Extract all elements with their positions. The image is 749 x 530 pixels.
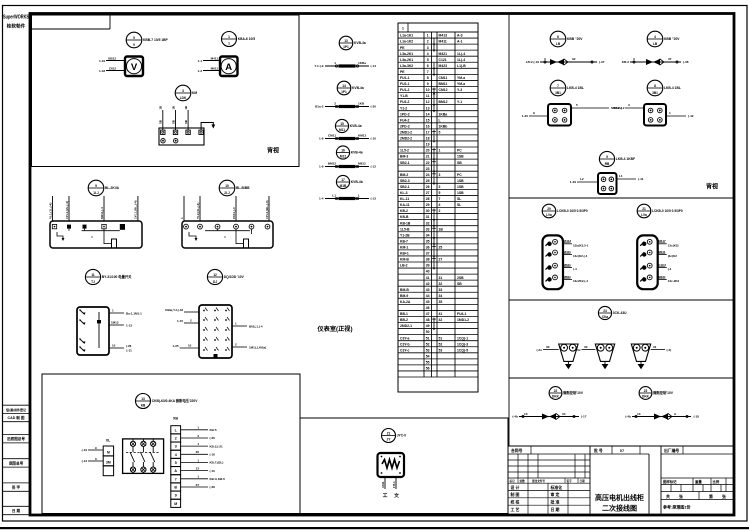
svg-text:10: 10 <box>112 343 116 347</box>
svg-text:高压电机出线柜: 高压电机出线柜 <box>595 493 644 502</box>
svg-text:33: 33 <box>439 288 443 292</box>
svg-text:XB: XB <box>173 417 178 421</box>
svg-text:M611,(-4: M611,(-4 <box>100 207 104 219</box>
svg-text:桂软勃件: 桂软勃件 <box>6 23 26 30</box>
svg-text:工 艺: 工 艺 <box>511 507 520 512</box>
svg-text:底图总号: 底图总号 <box>8 460 24 465</box>
svg-text:BL-2KVA: BL-2KVA <box>105 186 120 190</box>
svg-text:微断控制'10V: 微断控制'10V <box>652 390 674 395</box>
svg-text:1KBa: 1KBa <box>439 112 448 116</box>
svg-text:16: 16 <box>426 124 430 128</box>
svg-text:51: 51 <box>439 336 443 340</box>
svg-text:第: 第 <box>709 494 713 499</box>
svg-text:1: 1 <box>427 34 429 38</box>
svg-text:15: 15 <box>340 122 344 126</box>
svg-text:3B1: 3B1 <box>555 91 561 95</box>
svg-text:C3Y-a: C3Y-a <box>400 336 410 340</box>
svg-text:3: 3 <box>175 445 177 449</box>
svg-text:24: 24 <box>426 173 430 177</box>
svg-text:KB:2,(-21: KB:2,(-21 <box>210 444 224 448</box>
svg-text:5: 5 <box>439 130 441 134</box>
svg-text:SB: SB <box>171 120 175 124</box>
svg-text:22: 22 <box>426 161 430 165</box>
svg-text:A: A <box>174 469 177 473</box>
svg-text:1B: 1B <box>171 106 175 110</box>
svg-text:RB: RB <box>605 162 610 166</box>
svg-text:1SB: 1SB <box>457 191 464 195</box>
svg-text:(-13: (-13 <box>371 197 377 201</box>
svg-text:1-11: 1-11 <box>126 349 132 353</box>
svg-text:KB:A,KB:6: KB:A,KB:6 <box>210 477 226 481</box>
svg-text:L: L <box>358 193 360 197</box>
svg-text:背视: 背视 <box>267 147 279 155</box>
svg-text:5: 5 <box>133 36 135 40</box>
svg-text:1PD-2: 1PD-2 <box>400 112 410 116</box>
svg-text:BB-2: BB-2 <box>400 318 408 322</box>
svg-text:L1a-1K1: L1a-1K1 <box>400 34 413 38</box>
svg-text:A: A <box>225 62 232 73</box>
svg-text:C612: C612 <box>109 66 117 70</box>
svg-text:KM-1: KM-1 <box>400 245 408 249</box>
svg-text:SB2-1: SB2-1 <box>400 161 410 165</box>
svg-text:1KBb: 1KBb <box>439 124 448 128</box>
svg-text:13: 13 <box>196 466 200 470</box>
svg-text:SB2-3: SB2-3 <box>400 179 410 183</box>
svg-text:张: 张 <box>722 494 726 499</box>
svg-text:M: M <box>107 450 110 454</box>
svg-text:M: M <box>174 502 177 506</box>
svg-text:1SB: 1SB <box>457 185 464 189</box>
svg-text:LCKB-0 10/5 0.5/3P0: LCKB-0 10/5 0.5/3P0 <box>652 209 683 213</box>
svg-text:YM-a: YM-a <box>457 82 465 86</box>
svg-text:27: 27 <box>426 191 430 195</box>
svg-text:20: 20 <box>547 207 551 211</box>
svg-text:12: 12 <box>213 273 217 277</box>
svg-text:21: 21 <box>387 431 391 435</box>
svg-text:设 计: 设 计 <box>511 485 520 490</box>
svg-text:(-38: (-38 <box>683 60 689 64</box>
svg-text:KBB "20V: KBB "20V <box>567 37 583 41</box>
svg-text:旧底图总号: 旧底图总号 <box>7 436 25 441</box>
svg-text:KBA-6 10/5: KBA-6 10/5 <box>238 37 256 41</box>
svg-text:32: 32 <box>439 282 443 286</box>
svg-text:BB12: BB12 <box>108 56 116 60</box>
svg-text:CM11: CM11 <box>439 76 448 80</box>
svg-text:制 图: 制 图 <box>511 492 520 497</box>
svg-text:Y-3: Y-3 <box>457 88 462 92</box>
svg-text:YM-a: YM-a <box>457 76 465 80</box>
svg-text:LKB-4 1BL: LKB-4 1BL <box>664 86 681 90</box>
svg-text:1-8: 1-8 <box>319 137 324 141</box>
svg-text:13c(K2): 13c(K2) <box>668 243 679 247</box>
svg-text:L3a-2K1: L3a-2K1 <box>400 58 413 62</box>
svg-text:DJ: DJ <box>213 280 217 284</box>
svg-text:参考:原理图1份: 参考:原理图1份 <box>662 504 691 510</box>
svg-text:1SB: 1SB <box>457 179 464 183</box>
svg-text:1-9: 1-9 <box>319 165 324 169</box>
svg-text:Y1-B: Y1-B <box>400 94 408 98</box>
svg-text:C3Y-c: C3Y-c <box>400 348 410 352</box>
svg-text:1-49: 1-49 <box>570 180 576 184</box>
svg-text:KM: KM <box>192 91 197 95</box>
svg-text:LDK: LDK <box>180 96 187 100</box>
svg-text:CKB(-63/0.4KA 微断电压'220V: CKB(-63/0.4KA 微断电压'220V <box>152 398 199 403</box>
svg-text:1-1: 1-1 <box>198 59 203 63</box>
svg-text:(-37: (-37 <box>599 60 605 64</box>
svg-text:KVB-4a: KVB-4a <box>354 41 366 45</box>
svg-text:SB: SB <box>457 282 462 286</box>
svg-text:47: 47 <box>426 312 430 316</box>
svg-text:M812: M812 <box>358 161 366 165</box>
svg-text:2PD-2: 2PD-2 <box>400 124 410 128</box>
svg-text:(-18: (-18 <box>694 415 700 419</box>
svg-text:1LJ: 1LJ <box>93 191 99 195</box>
svg-text:DQ/1DD '10V: DQ/1DD '10V <box>224 275 245 279</box>
svg-text:LB:2,(-19: LB:2,(-19 <box>526 60 540 64</box>
svg-text:V: V <box>131 62 138 73</box>
svg-text:BM-2: BM-2 <box>400 173 408 177</box>
svg-text:L1: L1 <box>332 193 336 197</box>
svg-text:L: L <box>439 118 441 122</box>
svg-text:15: 15 <box>426 118 430 122</box>
svg-text:签字: 签字 <box>566 479 573 483</box>
svg-text:9: 9 <box>606 155 608 159</box>
svg-text:工: 工 <box>383 493 388 499</box>
svg-text:2: 2 <box>334 101 336 105</box>
svg-text:1CQ)-3: 1CQ)-3 <box>457 342 468 346</box>
svg-text:借(通)用件登记: 借(通)用件登记 <box>5 407 26 412</box>
svg-text:KB+1: KB+1 <box>400 252 409 256</box>
svg-text:KM12: KM12 <box>358 133 367 137</box>
svg-text:BB-1: BB-1 <box>400 312 408 316</box>
svg-text:FU4-2: FU4-2 <box>400 118 410 122</box>
svg-text:SuperWORKS: SuperWORKS <box>3 15 29 21</box>
svg-text:SB2-1: SB2-1 <box>400 185 410 189</box>
svg-text:(-2): (-2) <box>667 348 672 352</box>
svg-text:56: 56 <box>426 367 430 371</box>
svg-text:42: 42 <box>439 318 443 322</box>
svg-text:7: 7 <box>557 84 559 88</box>
svg-text:38: 38 <box>426 258 430 262</box>
svg-text:29: 29 <box>426 203 430 207</box>
svg-text:11: 11 <box>426 94 430 98</box>
svg-text:L3a-3K2: L3a-3K2 <box>400 64 413 68</box>
svg-text:41: 41 <box>426 276 430 280</box>
svg-text:35: 35 <box>196 450 200 454</box>
svg-text:LB: LB <box>653 42 658 46</box>
svg-text:M413: M413 <box>439 34 448 38</box>
svg-text:CKa: CKa <box>602 315 609 319</box>
svg-text:34: 34 <box>562 412 566 416</box>
svg-text:L1)-B: L1)-B <box>457 64 466 68</box>
svg-text:1L)-4: 1L)-4 <box>457 52 465 56</box>
svg-text:13c(K2,(-4: 13c(K2,(-4 <box>573 254 588 258</box>
svg-text:54: 54 <box>426 354 430 358</box>
svg-text:PC: PC <box>457 149 462 153</box>
svg-text:1P1: 1P1 <box>343 45 349 49</box>
svg-text:(-28: (-28 <box>210 485 216 489</box>
svg-text:35: 35 <box>426 239 430 243</box>
svg-text:7: 7 <box>427 70 429 74</box>
svg-text:5: 5 <box>175 461 177 465</box>
svg-text:2MD2-1: 2MD2-1 <box>400 324 412 328</box>
svg-text:4: 4 <box>654 35 656 39</box>
svg-text:重量: 重量 <box>695 479 702 484</box>
svg-text:1-20: 1-20 <box>522 114 528 118</box>
svg-text:SB2:3: SB2:3 <box>613 106 622 110</box>
svg-text:L3a-2K1: L3a-2K1 <box>400 52 413 56</box>
svg-text:(-10: (-10 <box>210 469 216 473</box>
svg-text:1YL1,(BL,(-4): 1YL1,(BL,(-4) <box>134 200 138 219</box>
svg-text:A-1: A-1 <box>457 40 463 44</box>
svg-text:45: 45 <box>426 300 430 304</box>
svg-text:(-10: (-10 <box>371 137 377 141</box>
svg-text:XL: XL <box>106 439 111 443</box>
svg-text:1SB: 1SB <box>457 155 464 159</box>
svg-text:8: 8 <box>427 76 429 80</box>
svg-text:5: 5 <box>427 58 429 62</box>
svg-text:14: 14 <box>342 84 346 88</box>
svg-text:(-42: (-42 <box>688 114 694 118</box>
svg-text:1KB: 1KB <box>358 101 365 105</box>
svg-text:19: 19 <box>426 143 430 147</box>
svg-text:Y1-2B: Y1-2B <box>400 233 410 237</box>
svg-text:文: 文 <box>394 492 399 499</box>
svg-text:51: 51 <box>426 336 430 340</box>
svg-text:1YL2,(BL,(-4): 1YL2,(BL,(-4) <box>265 200 269 219</box>
svg-text:17: 17 <box>341 178 345 182</box>
svg-text:YL1,(1L,(-4): YL1,(1L,(-4) <box>48 203 52 219</box>
svg-text:(-12: (-12 <box>371 165 377 169</box>
svg-text:KBB-7 10/5 1BP: KBB-7 10/5 1BP <box>143 38 169 42</box>
svg-text:图样标记: 图样标记 <box>663 479 677 484</box>
svg-text:KB:5: KB:5 <box>210 428 217 432</box>
svg-text:A-3: A-3 <box>457 34 463 38</box>
svg-text:1: 1 <box>669 111 671 115</box>
svg-text:LVa: LVa <box>546 213 552 217</box>
svg-text:10: 10 <box>426 88 430 92</box>
svg-text:SB: SB <box>159 120 163 124</box>
svg-text:6: 6 <box>557 35 559 39</box>
svg-text:(-16: (-16 <box>210 453 216 457</box>
svg-text:37: 37 <box>196 483 200 487</box>
svg-text:M411: M411 <box>439 40 447 44</box>
svg-text:13: 13 <box>524 412 528 416</box>
svg-text:9: 9 <box>533 111 535 115</box>
svg-text:Y.1:(-9: Y.1:(-9 <box>314 64 323 68</box>
svg-text:(-26: (-26 <box>210 436 216 440</box>
svg-text:标准化: 标准化 <box>550 485 563 490</box>
svg-text:1Bc(K3,5-): 1Bc(K3,5-) <box>573 243 588 247</box>
svg-text:21: 21 <box>642 207 646 211</box>
svg-text:35: 35 <box>439 300 443 304</box>
svg-text:9: 9 <box>95 184 97 188</box>
svg-text:20: 20 <box>426 149 430 153</box>
svg-text:3: 3 <box>439 173 441 177</box>
svg-text:KM-B: KM-B <box>400 258 409 262</box>
svg-text:2: 2 <box>439 209 441 213</box>
svg-text:1B: 1B <box>184 106 188 110</box>
svg-text:(-13: (-13 <box>82 459 88 463</box>
svg-text:SB: SB <box>457 161 462 165</box>
svg-text:39: 39 <box>426 264 430 268</box>
svg-text:出厂编号: 出厂编号 <box>664 448 679 453</box>
svg-text:签 字: 签 字 <box>12 485 21 490</box>
svg-text:5: 5 <box>439 191 441 195</box>
svg-text:KVB-4a: KVB-4a <box>350 124 362 128</box>
svg-text:KVB-4a: KVB-4a <box>352 86 364 90</box>
svg-text:43: 43 <box>426 288 430 292</box>
svg-text:C611,(-4: C611,(-4 <box>232 207 236 219</box>
svg-text:审 定: 审 定 <box>551 492 560 497</box>
svg-text:53: 53 <box>426 348 430 352</box>
svg-text:(-4: (-4 <box>573 267 577 271</box>
svg-text:背视: 背视 <box>706 183 718 191</box>
svg-text:1-19: 1-19 <box>99 59 105 63</box>
svg-text:1: 1 <box>334 61 336 65</box>
svg-text:KB-2: KB-2 <box>400 209 408 213</box>
svg-text:52: 52 <box>426 342 430 346</box>
svg-text:8: 8 <box>654 84 656 88</box>
svg-text:比例: 比例 <box>713 479 720 484</box>
svg-text:23: 23 <box>644 389 648 393</box>
svg-text:KB-7: KB-7 <box>400 239 408 243</box>
svg-text:(-2x: (-2x <box>536 348 542 352</box>
svg-text:13c-2K2: 13c-2K2 <box>668 279 680 283</box>
svg-text:2: 2 <box>427 40 429 44</box>
svg-text:2LJ: 2LJ <box>224 191 230 195</box>
svg-text:1-35: 1-35 <box>172 344 178 348</box>
svg-text:12: 12 <box>426 100 430 104</box>
svg-text:44: 44 <box>426 294 430 298</box>
svg-text:37: 37 <box>426 252 430 256</box>
svg-text:L2: L2 <box>580 177 584 181</box>
svg-text:TJ: TJ <box>91 280 95 284</box>
svg-text:27: 27 <box>439 258 443 262</box>
svg-text:仪表室(正视): 仪表室(正视) <box>316 325 352 333</box>
svg-text:26: 26 <box>426 185 430 189</box>
svg-text:1B: 1B <box>159 106 163 110</box>
svg-text:55: 55 <box>426 360 430 364</box>
svg-text:FU4-1: FU4-1 <box>457 312 467 316</box>
svg-text:18: 18 <box>426 137 430 141</box>
svg-text:(3c(K2: (3c(K2 <box>668 254 678 258</box>
svg-text:1: 1 <box>439 149 441 153</box>
svg-text:FU2-2: FU2-2 <box>400 100 410 104</box>
svg-text:YL2,(2L,(-4): YL2,(2L,(-4) <box>196 203 200 219</box>
svg-text:4: 4 <box>175 453 177 457</box>
svg-text:KVB-4a: KVB-4a <box>351 151 363 155</box>
svg-text:49: 49 <box>426 324 430 328</box>
svg-text:BM11: BM11 <box>439 82 448 86</box>
svg-text:7: 7 <box>175 477 177 481</box>
svg-text:JYC-0: JYC-0 <box>397 434 407 438</box>
svg-text:46: 46 <box>426 306 430 310</box>
svg-text:L1: L1 <box>619 174 623 178</box>
svg-text:48: 48 <box>426 318 430 322</box>
svg-text:30: 30 <box>546 345 550 349</box>
svg-text:13c2K2,(-4: 13c2K2,(-4 <box>573 279 588 283</box>
svg-text:3: 3 <box>182 89 184 93</box>
svg-text:1YL1: 1YL1 <box>392 481 396 488</box>
svg-text:1YL1,(2L,(-4): 1YL1,(2L,(-4) <box>65 201 69 219</box>
svg-text:3B1: 3B1 <box>652 91 658 95</box>
svg-text:3CK-43U: 3CK-43U <box>613 311 627 315</box>
svg-text:1L)-4: 1L)-4 <box>457 58 465 62</box>
svg-text:4: 4 <box>439 203 441 207</box>
svg-text:DKK: DKK <box>642 395 650 399</box>
svg-text:PC: PC <box>457 173 462 177</box>
svg-text:C3Y-b: C3Y-b <box>400 342 410 346</box>
svg-text:23: 23 <box>426 167 430 171</box>
svg-text:1-3: 1-3 <box>198 69 203 73</box>
svg-text:BM12: BM12 <box>328 161 337 165</box>
svg-text:2MD2-2: 2MD2-2 <box>400 137 412 141</box>
svg-text:KB:7,(BL): KB:7,(BL) <box>210 461 224 465</box>
svg-text:1-4: 1-4 <box>319 197 324 201</box>
svg-text:1P1: 1P1 <box>341 90 347 94</box>
svg-text:日 期: 日 期 <box>12 508 21 513</box>
svg-text:BL-B/BB: BL-B/BB <box>236 186 250 190</box>
svg-text:7: 7 <box>439 197 441 201</box>
svg-text:(-14: (-14 <box>371 64 377 68</box>
svg-text:(-41: (-41 <box>638 177 644 181</box>
svg-text:1CQ)-1: 1CQ)-1 <box>457 336 468 340</box>
svg-text:FU1-1: FU1-1 <box>400 76 410 80</box>
svg-text:B: B <box>174 485 177 489</box>
svg-text:34: 34 <box>426 233 430 237</box>
svg-text:DKK: DKK <box>552 395 560 399</box>
svg-text:3: 3 <box>427 46 429 50</box>
svg-text:(-26: (-26 <box>126 344 132 348</box>
svg-text:KB-B: KB-B <box>400 215 409 219</box>
svg-text:(-4: (-4 <box>668 267 672 271</box>
svg-text:微断控制'10V: 微断控制'10V <box>562 390 584 395</box>
svg-text:1L5-2: 1L5-2 <box>400 149 409 153</box>
svg-text:KB: KB <box>141 404 146 408</box>
svg-text:30: 30 <box>584 345 588 349</box>
svg-text:16: 16 <box>341 148 345 152</box>
svg-text:LB-2: LB-2 <box>400 264 408 268</box>
svg-text:(-17: (-17 <box>581 415 587 419</box>
svg-text:KL-3: KL-3 <box>400 191 408 195</box>
svg-text:LKB-4 1BL: LKB-4 1BL <box>567 86 584 90</box>
svg-text:07: 07 <box>620 449 624 453</box>
svg-text:KVB-4b: KVB-4b <box>351 180 363 184</box>
svg-text:SL: SL <box>457 197 461 201</box>
svg-text:13: 13 <box>141 397 145 401</box>
svg-text:5: 5 <box>576 103 578 107</box>
svg-text:SL: SL <box>457 203 461 207</box>
svg-text:(-4b: (-4b <box>512 415 518 419</box>
svg-text:M11: M11 <box>339 128 345 132</box>
svg-text:BM-B: BM-B <box>400 288 409 292</box>
svg-text:KBa(,YJ,(-18: KBa(,YJ,(-18 <box>165 308 183 312</box>
svg-text:CM12: CM12 <box>439 88 448 92</box>
svg-text:10: 10 <box>225 184 229 188</box>
svg-text:2SB: 2SB <box>457 276 464 280</box>
svg-text:L1a-1K2: L1a-1K2 <box>400 40 413 44</box>
svg-text:批 准: 批 准 <box>551 499 560 504</box>
svg-text:BM-9: BM-9 <box>400 294 408 298</box>
svg-text:PE: PE <box>400 46 405 50</box>
svg-text:张: 张 <box>679 494 683 499</box>
svg-text:22: 22 <box>554 389 558 393</box>
svg-text:(-0x: (-0x <box>575 348 581 352</box>
svg-text:1: 1 <box>402 27 404 31</box>
svg-text:M421: M421 <box>439 52 448 56</box>
svg-text:M411: M411 <box>211 56 219 60</box>
